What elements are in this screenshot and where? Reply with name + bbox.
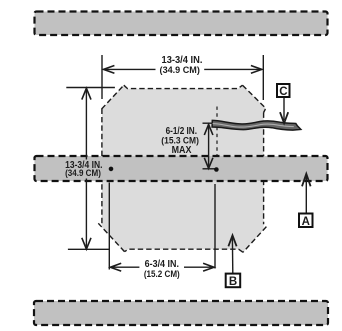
flexible conduit cable <box>212 120 301 130</box>
center dimension up arrowhead <box>204 124 213 135</box>
octagon top-right chamfer and notch <box>243 85 266 112</box>
octagon bottom-right flap chamfer <box>243 227 266 253</box>
bottom dimension left extension <box>108 183 110 270</box>
top joist bar <box>35 12 328 36</box>
octagon bottom-left flap chamfer <box>98 223 124 251</box>
top dimension left arrowhead <box>104 66 115 74</box>
octagon bottom edge with notches <box>125 249 244 252</box>
bottom dimension right extension <box>214 184 216 269</box>
label A arrow <box>305 177 307 214</box>
cable center highlight <box>213 124 294 128</box>
octagon right edge <box>263 113 265 225</box>
bottom dimension line <box>111 266 139 268</box>
left dimension down arrowhead <box>82 238 91 249</box>
left dimension line <box>85 88 87 159</box>
dashed cable axis line <box>216 107 218 157</box>
left dimension up arrowhead <box>82 88 91 99</box>
label C arrow <box>283 97 285 120</box>
left dimension label <box>64 160 106 178</box>
middle mounting rail bar <box>35 156 328 181</box>
svg-text:(34.9 CM): (34.9 CM) <box>65 168 101 179</box>
left dimension bottom tick <box>68 248 110 250</box>
bottom dimension left arrowhead <box>110 263 121 271</box>
svg-text:MAX: MAX <box>172 145 192 156</box>
center vertical dimension top tick <box>203 122 217 124</box>
octagon left edge <box>101 109 103 225</box>
label A box <box>299 214 313 228</box>
bottom joist bar <box>34 301 328 325</box>
label B arrow <box>231 238 233 274</box>
svg-text:A: A <box>302 216 310 228</box>
octagon top-left chamfer <box>102 85 124 109</box>
top dimension extension line right <box>262 55 264 100</box>
top dimension extension line left <box>101 55 103 99</box>
right screw dot <box>214 167 219 172</box>
bottom dimension right arrowhead <box>203 263 214 271</box>
svg-text:C: C <box>279 86 287 98</box>
center vertical dimension line <box>208 124 210 168</box>
center dimension down arrowhead <box>204 158 213 169</box>
top dimension right arrowhead <box>251 66 262 74</box>
top dimension line <box>104 68 156 70</box>
left dimension top tick <box>66 87 115 89</box>
octagon top edge with corner peaks <box>124 85 243 88</box>
svg-text:(15.2 CM): (15.2 CM) <box>144 269 180 280</box>
svg-text:B: B <box>229 276 237 288</box>
label C box <box>277 84 290 97</box>
label B box <box>226 274 241 288</box>
cutout template octagon fill <box>102 85 266 252</box>
center vertical dimension bottom tick <box>203 168 216 170</box>
svg-text:(34.9 CM): (34.9 CM) <box>160 65 200 76</box>
left screw dot <box>109 167 114 172</box>
